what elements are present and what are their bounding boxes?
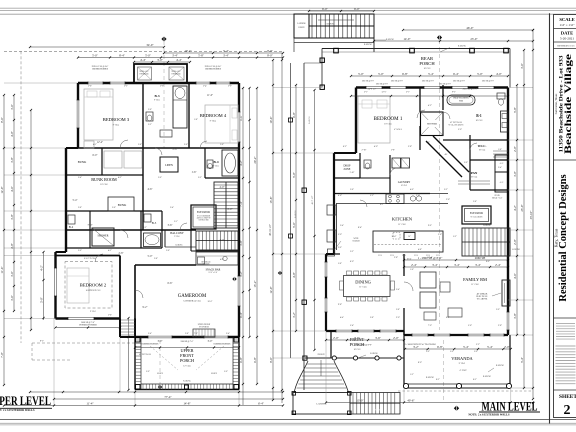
svg-text:10'-2": 10'-2" xyxy=(207,301,212,303)
svg-text:SLOPE: SLOPE xyxy=(211,373,218,375)
upper front porch slope dashes xyxy=(150,346,178,370)
svg-text:7'-0": 7'-0" xyxy=(0,351,4,358)
svg-text:RAILING: RAILING xyxy=(370,352,378,355)
svg-text:9'-0": 9'-0" xyxy=(267,53,274,57)
main level B-1 vanity xyxy=(501,111,509,132)
svg-text:DOWN: DOWN xyxy=(299,27,306,29)
svg-text:4'-4": 4'-4" xyxy=(176,58,183,62)
svg-text:2'-8": 2'-8" xyxy=(394,257,398,259)
svg-text:NOTE: 2 x 6 EXTERIOR WALLS: NOTE: 2 x 6 EXTERIOR WALLS xyxy=(468,414,510,417)
svg-text:DATE: DATE xyxy=(561,31,573,36)
svg-text:3'-6": 3'-6" xyxy=(10,270,14,277)
svg-text:3'-4": 3'-4" xyxy=(226,333,230,335)
main level AC closets xyxy=(495,155,508,172)
svg-text:1'-6": 1'-6" xyxy=(410,269,414,271)
svg-text:LANDING: LANDING xyxy=(512,248,521,251)
svg-text:3'-0": 3'-0" xyxy=(157,58,164,62)
upper level windows bedroom2 xyxy=(54,268,57,296)
main level wic walls xyxy=(469,135,471,160)
svg-text:4'-4": 4'-4" xyxy=(140,58,147,62)
main level section diamond top xyxy=(437,35,442,40)
svg-text:12'-0": 12'-0" xyxy=(269,286,273,294)
svg-text:8'-4": 8'-4" xyxy=(119,53,126,57)
main level front porch outline xyxy=(330,331,332,358)
main level section dashed centerline xyxy=(439,40,441,330)
svg-text:10' CLG: 10' CLG xyxy=(401,185,408,187)
upper level right dimension chain inner xyxy=(242,88,244,405)
svg-text:34'-0": 34'-0" xyxy=(146,43,154,47)
svg-text:2'-8": 2'-8" xyxy=(173,148,178,151)
upper level bedroom2 dashed ceiling xyxy=(65,262,112,309)
svg-text:4'-0": 4'-0" xyxy=(410,189,414,191)
svg-text:3'-4": 3'-4" xyxy=(148,333,152,335)
svg-text:3'-0": 3'-0" xyxy=(160,86,164,88)
svg-text:LANDING: LANDING xyxy=(297,22,306,25)
svg-text:4'-0": 4'-0" xyxy=(220,186,225,189)
svg-text:2'-6": 2'-6" xyxy=(220,144,224,146)
svg-text:5'-0": 5'-0" xyxy=(224,371,228,373)
svg-text:4'-8": 4'-8" xyxy=(292,271,296,278)
svg-text:BEDROOM 2: BEDROOM 2 xyxy=(80,283,107,288)
main level bedroom1 right wall xyxy=(419,88,421,113)
svg-text:7'-0": 7'-0" xyxy=(88,224,93,227)
main level dining windows left wall xyxy=(325,262,328,277)
main level kitchen counter xyxy=(336,193,448,195)
main level windows top wall xyxy=(366,86,382,89)
svg-text:5'-0": 5'-0" xyxy=(358,72,365,76)
svg-text:1'-10": 1'-10" xyxy=(349,172,354,174)
svg-text:Beachside Village: Beachside Village xyxy=(564,54,574,154)
svg-text:9' CLG: 9' CLG xyxy=(459,363,466,365)
svg-text:DOWN: DOWN xyxy=(374,410,381,412)
svg-text:RAILING: RAILING xyxy=(483,224,491,227)
main level left deck rail xyxy=(290,63,292,358)
svg-text:2'-0": 2'-0" xyxy=(228,86,232,88)
svg-text:3'-2": 3'-2" xyxy=(292,311,296,318)
svg-text:3'-2": 3'-2" xyxy=(444,189,448,191)
svg-text:5'-8": 5'-8" xyxy=(198,53,205,57)
svg-text:2'-0": 2'-0" xyxy=(220,239,225,242)
upper level interior wall bunk closet band xyxy=(66,174,143,176)
svg-text:4'-2": 4'-2" xyxy=(428,105,432,107)
main level exterior walls xyxy=(356,86,508,88)
upper level left extension lines xyxy=(4,82,78,84)
svg-text:5'-4": 5'-4" xyxy=(463,345,470,349)
svg-text:6'-8": 6'-8" xyxy=(253,356,257,363)
svg-text:5'-4": 5'-4" xyxy=(73,199,78,202)
svg-text:1/4" = 1'-0": 1/4" = 1'-0" xyxy=(560,23,576,27)
upper level bedroom2 walls xyxy=(56,255,121,257)
main level veranda outline xyxy=(403,335,405,388)
svg-text:3'-8": 3'-8" xyxy=(408,146,412,148)
upper level right chain extra ticks xyxy=(249,88,251,337)
svg-text:TO PORCH: TO PORCH xyxy=(199,327,209,329)
svg-text:Residential Concept Designs: Residential Concept Designs xyxy=(558,174,569,301)
upper porch corner posts xyxy=(136,338,141,343)
svg-text:3'-6": 3'-6" xyxy=(112,207,116,209)
svg-text:15'-2": 15'-2" xyxy=(253,280,257,288)
svg-text:45°: 45° xyxy=(444,153,447,156)
svg-text:5'-4": 5'-4" xyxy=(203,86,207,88)
svg-text:2'-4": 2'-4" xyxy=(411,263,418,267)
svg-text:3'-0": 3'-0" xyxy=(158,340,163,343)
svg-text:4" WALL: 4" WALL xyxy=(394,128,403,131)
main level bedroom1 bed xyxy=(358,96,390,143)
upper level elevator xyxy=(191,205,216,229)
svg-text:6'-0": 6'-0" xyxy=(93,154,98,157)
main level bottom dimension line xyxy=(326,402,533,404)
main level veranda rail xyxy=(404,383,510,385)
svg-text:2860 SH @ 8'-0": 2860 SH @ 8'-0" xyxy=(482,81,495,83)
svg-text:6'-8": 6'-8" xyxy=(437,345,444,349)
upper level bedroom2 bed xyxy=(67,268,89,303)
svg-text:B-2: B-2 xyxy=(69,225,74,229)
svg-text:MAIN LEVEL: MAIN LEVEL xyxy=(482,399,538,413)
svg-text:3'-8": 3'-8" xyxy=(10,213,14,220)
svg-text:6'-0": 6'-0" xyxy=(354,7,361,11)
main level dining table xyxy=(344,276,391,297)
svg-text:DOWN: DOWN xyxy=(318,354,325,356)
main level right dimension chain mid xyxy=(523,50,525,388)
svg-text:T.V. ABOVE: T.V. ABOVE xyxy=(477,298,488,301)
svg-text:2'-8": 2'-8" xyxy=(185,333,189,335)
svg-text:4'-0": 4'-0" xyxy=(10,130,14,137)
svg-text:9'-2": 9'-2" xyxy=(452,92,456,94)
svg-text:6'-0": 6'-0" xyxy=(350,261,354,263)
upper level snack bar xyxy=(196,252,238,265)
svg-text:SHEET: SHEET xyxy=(559,394,576,400)
main level veranda posts xyxy=(403,383,408,388)
svg-text:8'-2": 8'-2" xyxy=(40,341,44,343)
svg-text:8'-0": 8'-0" xyxy=(486,261,490,263)
svg-text:SLOPE: SLOPE xyxy=(157,373,164,375)
svg-text:3'-6": 3'-6" xyxy=(10,103,14,110)
svg-text:14'-8": 14'-8" xyxy=(183,401,191,405)
svg-text:8'-2": 8'-2" xyxy=(473,379,477,381)
svg-text:4'-6": 4'-6" xyxy=(338,195,342,197)
svg-text:20'-2": 20'-2" xyxy=(253,156,257,164)
main level rear porch outline xyxy=(322,48,510,50)
svg-text:5'-6": 5'-6" xyxy=(88,86,92,88)
svg-text:9'-6": 9'-6" xyxy=(0,116,4,123)
svg-text:1'-8": 1'-8" xyxy=(498,149,502,151)
svg-text:6'-8": 6'-8" xyxy=(402,72,409,76)
svg-text:2660 SH: 2660 SH xyxy=(475,256,486,260)
svg-text:4'-0": 4'-0" xyxy=(220,259,224,261)
svg-text:5'-8": 5'-8" xyxy=(338,263,342,265)
svg-text:BUNK ROOM: BUNK ROOM xyxy=(91,177,117,182)
svg-text:RAILING: RAILING xyxy=(458,45,467,48)
svg-text:45'-10 1/2": 45'-10 1/2" xyxy=(269,224,272,236)
svg-text:10'-2": 10'-2" xyxy=(184,49,192,53)
main level powder room xyxy=(360,177,390,179)
svg-text:2'-6": 2'-6" xyxy=(148,109,152,111)
svg-text:STORAGE: STORAGE xyxy=(139,73,149,76)
svg-text:40'-6": 40'-6" xyxy=(407,398,415,402)
upper level top dimension chain xyxy=(78,57,283,59)
svg-text:3'-1": 3'-1" xyxy=(174,221,178,223)
title block scale box xyxy=(554,28,576,30)
main level interior stairs hatch xyxy=(462,228,510,256)
upper level B-4 toilet xyxy=(207,160,213,168)
main level top dimension line second xyxy=(374,40,533,42)
upper level bunk beds top xyxy=(104,151,122,168)
title block left border xyxy=(549,13,551,423)
svg-text:5'-2": 5'-2" xyxy=(453,236,457,238)
svg-text:2'-2": 2'-2" xyxy=(143,227,147,229)
svg-text:9'-8": 9'-8" xyxy=(338,304,342,306)
svg-text:4'-2": 4'-2" xyxy=(118,177,122,179)
svg-text:3'-0": 3'-0" xyxy=(338,247,342,249)
svg-text:10' CLG: 10' CLG xyxy=(479,150,486,152)
svg-text:5'-0": 5'-0" xyxy=(292,171,296,178)
svg-text:DORMER/DORMER: DORMER/DORMER xyxy=(79,324,97,326)
svg-text:3'-0": 3'-0" xyxy=(208,340,213,343)
svg-text:15'-8": 15'-8" xyxy=(269,196,273,204)
svg-text:12'-4": 12'-4" xyxy=(427,257,432,259)
main level stair landing xyxy=(293,393,350,415)
upper level stairwell upper flight xyxy=(214,182,238,228)
svg-text:2'-4": 2'-4" xyxy=(340,225,344,227)
svg-text:10' CLG: 10' CLG xyxy=(354,349,361,351)
svg-text:9' CLG: 9' CLG xyxy=(154,100,160,102)
svg-text:11' CLG: 11' CLG xyxy=(471,284,479,286)
svg-text:RAILING: RAILING xyxy=(183,380,191,383)
svg-text:25'-0": 25'-0" xyxy=(520,204,524,212)
main level grand stair fan xyxy=(294,361,308,393)
svg-text:2'-4": 2'-4" xyxy=(495,263,502,267)
svg-text:RAILING: RAILING xyxy=(364,43,373,46)
upper level hall steps to gameroom xyxy=(121,319,135,321)
svg-text:4'-2": 4'-2" xyxy=(39,264,43,271)
main level under veranda dashed line xyxy=(398,390,533,392)
svg-text:2'-8": 2'-8" xyxy=(396,309,400,311)
svg-text:3'-6": 3'-6" xyxy=(184,144,188,146)
main level right dimension chain inner xyxy=(516,85,518,335)
svg-text:5'-4": 5'-4" xyxy=(428,72,435,76)
upper level bottom dimension line 77ft xyxy=(54,398,283,400)
upper level windows top wall xyxy=(88,82,103,85)
upper level dormer closet right xyxy=(169,67,184,80)
svg-text:9'-0": 9'-0" xyxy=(428,225,432,227)
svg-text:3'-4": 3'-4" xyxy=(172,53,179,57)
svg-text:3'-6": 3'-6" xyxy=(438,234,442,236)
svg-text:1'-2": 1'-2" xyxy=(410,374,414,376)
main level title diamond xyxy=(454,406,459,411)
svg-text:16'-0": 16'-0" xyxy=(391,236,396,238)
svg-text:RAILING: RAILING xyxy=(386,38,395,41)
svg-text:7'-0": 7'-0" xyxy=(428,325,432,327)
upper level left dimension chain fourth xyxy=(43,252,45,320)
svg-text:4'-8": 4'-8" xyxy=(10,242,14,249)
upper level balcony xyxy=(164,230,166,247)
svg-text:RAILING: RAILING xyxy=(308,115,311,123)
svg-text:DORMER/DORMER: DORMER/DORMER xyxy=(142,344,159,346)
svg-text:5'-8": 5'-8" xyxy=(513,106,517,113)
main level kitchen island xyxy=(373,231,443,252)
svg-text:2860 SH @ 8'-0": 2860 SH @ 8'-0" xyxy=(422,81,435,83)
svg-text:12'-4": 12'-4" xyxy=(97,141,103,144)
title block revised strip xyxy=(554,48,576,50)
svg-text:2'-0": 2'-0" xyxy=(513,145,517,152)
svg-text:5'-4": 5'-4" xyxy=(520,356,524,363)
upper level left dimension chain outer xyxy=(3,95,5,385)
svg-text:DORMER/DORMER: DORMER/DORMER xyxy=(92,69,109,71)
svg-text:3'-6": 3'-6" xyxy=(426,142,430,144)
svg-text:4'-2": 4'-2" xyxy=(108,250,112,252)
svg-text:2'-8": 2'-8" xyxy=(473,201,477,203)
sheet bottom border lines xyxy=(0,419,576,421)
svg-text:PAN: PAN xyxy=(471,171,478,175)
upper level section dashed centerline xyxy=(163,41,165,148)
upper level dormer dimension line xyxy=(134,61,190,63)
main level bottom extension lines xyxy=(325,331,327,403)
svg-text:2'-8": 2'-8" xyxy=(138,144,142,146)
svg-text:W/ CAB ABOVE: W/ CAB ABOVE xyxy=(470,216,482,219)
upper level wall below stairs xyxy=(191,250,238,252)
upper front porch outline xyxy=(134,337,136,390)
svg-text:5'-4": 5'-4" xyxy=(487,345,494,349)
svg-text:DW30: DW30 xyxy=(378,255,382,257)
svg-text:12'-5": 12'-5" xyxy=(381,92,386,94)
svg-text:DINING: DINING xyxy=(355,280,371,285)
svg-text:11'-6": 11'-6" xyxy=(0,266,4,274)
main level right dimension chain outer xyxy=(532,30,534,399)
svg-text:6'-1": 6'-1" xyxy=(380,204,384,206)
upper level gameroom walls xyxy=(135,264,196,266)
svg-text:9' CLG: 9' CLG xyxy=(174,236,180,238)
sheet top border lines xyxy=(0,7,576,9)
svg-text:2 - 3068 FRENCH W/ TRANSOM: 2 - 3068 FRENCH W/ TRANSOM xyxy=(405,343,436,346)
svg-text:RAILING: RAILING xyxy=(426,376,435,379)
svg-text:SHOWER: SHOWER xyxy=(427,123,437,126)
svg-text:3'-4": 3'-4" xyxy=(78,177,82,179)
upper level interior wall band xyxy=(66,147,239,149)
upper level gameroom left dim chain xyxy=(128,318,130,390)
main level stair run from landing xyxy=(350,393,400,415)
svg-text:RAILING: RAILING xyxy=(294,209,297,217)
svg-text:12' CLG: 12' CLG xyxy=(183,366,191,368)
svg-text:24'-0 1/2": 24'-0 1/2" xyxy=(368,89,377,91)
svg-text:3'-4": 3'-4" xyxy=(432,263,439,267)
svg-text:2'-8": 2'-8" xyxy=(513,238,517,245)
upper level bottom diamond xyxy=(158,385,162,389)
svg-text:5'-0": 5'-0" xyxy=(39,296,43,303)
svg-text:B-3: B-3 xyxy=(154,94,159,98)
svg-text:W.I.C.: W.I.C. xyxy=(478,144,487,148)
svg-text:4'-6": 4'-6" xyxy=(10,185,14,192)
title block divider xyxy=(554,159,576,161)
svg-text:8'-0": 8'-0" xyxy=(418,362,422,364)
svg-text:3'-6": 3'-6" xyxy=(354,336,361,340)
svg-text:3'-0": 3'-0" xyxy=(78,250,82,252)
upper level dormer closet left xyxy=(138,67,152,80)
svg-text:9'-2": 9'-2" xyxy=(143,306,148,309)
svg-text:6'-6": 6'-6" xyxy=(168,282,173,285)
svg-text:2860 SH @ 8'-0": 2860 SH @ 8'-0" xyxy=(376,83,389,85)
main level dining walls opening xyxy=(403,254,405,276)
svg-text:2'-4": 2'-4" xyxy=(498,167,502,169)
svg-text:5'-8": 5'-8" xyxy=(391,150,395,152)
svg-text:5'-0": 5'-0" xyxy=(146,371,150,373)
svg-text:10' CLG: 10' CLG xyxy=(384,124,392,126)
svg-text:2'-8": 2'-8" xyxy=(78,207,82,209)
svg-text:3'-1": 3'-1" xyxy=(364,92,368,94)
svg-text:5'-0": 5'-0" xyxy=(92,53,99,57)
svg-text:BUNK: BUNK xyxy=(118,203,127,207)
svg-text:3'-4": 3'-4" xyxy=(396,289,400,291)
svg-text:2'-4": 2'-4" xyxy=(170,207,174,209)
svg-text:3'-1": 3'-1" xyxy=(406,92,410,94)
main level family window right xyxy=(507,312,510,330)
svg-text:COOLER: COOLER xyxy=(352,241,360,243)
upper level roof overhang dashes lower left xyxy=(32,342,135,344)
upper level top dimension line 34ft xyxy=(30,46,164,48)
svg-text:6'-2": 6'-2" xyxy=(343,146,347,148)
svg-text:KITCHEN: KITCHEN xyxy=(392,217,413,222)
svg-text:4'-0": 4'-0" xyxy=(374,146,378,148)
svg-text:4'-8": 4'-8" xyxy=(418,249,422,251)
svg-text:4'-6": 4'-6" xyxy=(148,188,153,191)
main level veranda dim row xyxy=(404,348,511,350)
svg-text:PORCH: PORCH xyxy=(419,61,435,66)
svg-text:RAILING: RAILING xyxy=(176,244,184,247)
svg-text:DORMER/DORMER: DORMER/DORMER xyxy=(205,69,222,71)
svg-text:5'-6": 5'-6" xyxy=(468,325,472,327)
svg-text:PORCH: PORCH xyxy=(180,358,194,363)
svg-text:BUNK: BUNK xyxy=(78,160,87,164)
svg-text:A/C: A/C xyxy=(500,162,504,165)
svg-text:4'-6": 4'-6" xyxy=(513,272,517,279)
svg-text:ELEVATOR: ELEVATOR xyxy=(470,212,483,215)
upper level left dimension chain third xyxy=(30,110,32,330)
main level rear stairs top dim xyxy=(309,10,374,12)
title block frame xyxy=(554,15,576,418)
svg-text:9' CLG: 9' CLG xyxy=(113,125,120,127)
svg-text:NOTE: 2 x 6 EXTERIOR WALLS: NOTE: 2 x 6 EXTERIOR WALLS xyxy=(0,409,35,412)
main level interior dimension rows xyxy=(404,266,508,268)
svg-text:3'-2": 3'-2" xyxy=(148,124,152,126)
svg-text:5'-6": 5'-6" xyxy=(292,221,296,228)
svg-text:5'-0": 5'-0" xyxy=(450,351,454,353)
main level door arcs xyxy=(417,110,425,118)
svg-text:BALCONY: BALCONY xyxy=(170,232,184,235)
svg-text:LAUNDRY: LAUNDRY xyxy=(398,181,411,184)
upper level bunk closet walls xyxy=(101,148,103,175)
svg-text:9'-0": 9'-0" xyxy=(267,49,274,53)
svg-text:SNACK BAR: SNACK BAR xyxy=(206,269,221,272)
svg-text:B-1: B-1 xyxy=(476,114,482,118)
title block date box xyxy=(554,41,576,43)
svg-text:3'-4": 3'-4" xyxy=(475,263,482,267)
svg-text:23'-0": 23'-0" xyxy=(470,37,478,41)
main level elevator xyxy=(462,206,491,224)
svg-text:10' CLG: 10' CLG xyxy=(476,120,483,122)
svg-text:6'-0": 6'-0" xyxy=(322,7,329,11)
upper level bottom extension lines xyxy=(53,319,55,406)
svg-text:SCALE: SCALE xyxy=(559,17,574,22)
svg-text:DOWN: DOWN xyxy=(327,24,334,26)
upper level window and door arcs xyxy=(120,140,128,148)
svg-text:4'-2": 4'-2" xyxy=(513,204,517,211)
svg-text:10'-6": 10'-6" xyxy=(269,116,273,124)
svg-text:3'-6": 3'-6" xyxy=(375,336,382,340)
svg-text:UPPER LEVEL: UPPER LEVEL xyxy=(0,394,51,408)
svg-text:13'-0": 13'-0" xyxy=(356,398,364,402)
upper level stairwell lower flight xyxy=(196,231,238,250)
upper level shower bedroom2 xyxy=(92,228,114,246)
svg-text:10' CLG: 10' CLG xyxy=(424,68,431,70)
